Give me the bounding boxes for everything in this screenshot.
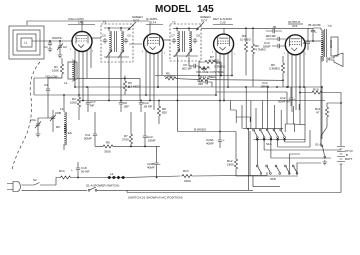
resistor R10 xyxy=(311,91,323,94)
svg-text:2200: 2200 xyxy=(184,179,191,183)
capacitor C6B variable xyxy=(50,115,56,122)
svg-text:C1: C1 xyxy=(44,45,48,49)
dashed chassis curve xyxy=(12,62,40,170)
svg-text:7: 7 xyxy=(305,54,307,56)
wire plug bottom xyxy=(22,189,88,191)
svg-text:MODEL: MODEL xyxy=(155,4,191,15)
svg-text:C6B: C6B xyxy=(55,111,61,115)
resistor R5c 4.7MEG xyxy=(165,77,177,80)
wire bottom rail xyxy=(127,192,341,194)
svg-text:(SWITCH S1 SHOWN IN AC POSITIO: (SWITCH S1 SHOWN IN AC POSITION) xyxy=(128,196,183,200)
wire tube2 pins xyxy=(146,49,162,110)
capacitor C10b xyxy=(139,101,143,107)
svg-text:2: 2 xyxy=(76,33,78,35)
svg-text:820: 820 xyxy=(162,111,167,115)
capacitor C20B 40MF xyxy=(154,161,158,167)
wire tube3 top stub xyxy=(223,28,225,33)
svg-text:.05 MF: .05 MF xyxy=(143,105,153,109)
resistor R7 2700 xyxy=(129,133,132,145)
wire tube1 pins xyxy=(75,47,91,101)
capacitor C17 xyxy=(86,101,90,107)
svg-text:1: 1 xyxy=(70,49,72,51)
capacitor C8 .05 xyxy=(119,101,123,107)
resistor R4 xyxy=(204,60,216,63)
wire T1 out xyxy=(109,44,142,101)
wire c2 drop xyxy=(59,41,61,53)
wire antenna to grid xyxy=(32,40,72,42)
svg-text:DOT: DOT xyxy=(133,19,140,23)
wire tube1 top stub xyxy=(81,21,83,32)
capacitor C2 variable xyxy=(57,44,63,51)
svg-text:3.3 MEG: 3.3 MEG xyxy=(128,85,141,89)
wire top bus xyxy=(27,21,149,25)
wire bus y100 xyxy=(79,100,325,102)
wire y92 line xyxy=(216,91,287,93)
svg-text:L2: L2 xyxy=(64,81,68,85)
switch S1 row2 xyxy=(256,165,262,174)
wire plate bus y28 xyxy=(201,27,313,29)
svg-text:4.7MEG: 4.7MEG xyxy=(164,75,176,79)
svg-text:R14: R14 xyxy=(59,169,65,173)
wire tube2 top stub xyxy=(149,21,151,34)
svg-text:L1: L1 xyxy=(24,41,28,45)
svg-text:50MF: 50MF xyxy=(84,137,92,141)
svg-text:1: 1 xyxy=(284,53,286,55)
svg-text:3V4: 3V4 xyxy=(292,24,298,28)
tube V2 xyxy=(144,34,164,54)
capacitor C20A 40MF xyxy=(218,138,222,144)
svg-text:.05F: .05F xyxy=(123,105,129,109)
resistor R12 1800 xyxy=(234,158,237,170)
svg-text:7: 7 xyxy=(164,53,166,55)
wire right routing xyxy=(285,120,306,142)
svg-text:145: 145 xyxy=(197,4,214,15)
svg-text:3.3MEG: 3.3MEG xyxy=(269,67,281,71)
speaker box xyxy=(331,37,338,56)
capacitor C6A variable xyxy=(35,122,41,129)
svg-text:1: 1 xyxy=(142,51,144,53)
tube V1 xyxy=(72,32,92,52)
svg-text:.05: .05 xyxy=(272,25,277,29)
svg-text:1800: 1800 xyxy=(227,163,234,167)
coil L2 xyxy=(68,62,77,79)
svg-text:330: 330 xyxy=(198,82,203,86)
svg-text:.05MF: .05MF xyxy=(260,85,269,89)
wire row2 bus xyxy=(253,176,298,187)
svg-text:+: + xyxy=(315,30,317,34)
svg-text:1000: 1000 xyxy=(70,101,77,105)
resistor R5 xyxy=(251,43,254,55)
svg-text:DOT: DOT xyxy=(201,19,208,23)
transformer T2 xyxy=(170,21,201,62)
svg-text:100K: 100K xyxy=(52,69,59,73)
svg-text:SPKR: SPKR xyxy=(329,40,333,49)
AC plug xyxy=(7,182,20,192)
coil L3 xyxy=(64,112,66,133)
svg-text:+: + xyxy=(71,168,73,172)
wire row1 bottom bus xyxy=(254,139,306,141)
svg-text:+: + xyxy=(223,138,225,142)
svg-text:WHITE: WHITE xyxy=(52,36,62,40)
svg-text:+: + xyxy=(159,162,161,166)
capacitor C4 xyxy=(46,87,50,93)
svg-text:BATT: BATT xyxy=(345,157,353,161)
resistor R9b 3.3MEG xyxy=(281,62,284,74)
wire speaker down xyxy=(320,61,322,146)
svg-text:50 MF: 50 MF xyxy=(81,170,90,174)
tube V3 xyxy=(214,34,234,54)
switch S1 row1 xyxy=(253,129,259,138)
resistor R2 1000 xyxy=(77,96,80,108)
svg-text:1U5: 1U5 xyxy=(220,21,226,25)
ground xyxy=(322,160,327,165)
tube V4 xyxy=(285,35,305,55)
transformer T3 xyxy=(313,24,332,61)
svg-text:S2: S2 xyxy=(33,178,37,182)
svg-text:1T4: 1T4 xyxy=(151,21,157,25)
svg-text:B WNDG: B WNDG xyxy=(194,128,207,132)
svg-text:T1: T1 xyxy=(103,21,107,25)
svg-text:.002 MF: .002 MF xyxy=(181,67,192,71)
svg-text:1R5: 1R5 xyxy=(78,21,84,25)
resistor R4b 4.7meg xyxy=(198,78,210,81)
wire L corner xyxy=(230,110,250,122)
wire S1 bus xyxy=(243,128,283,130)
svg-text:40MF: 40MF xyxy=(147,166,155,170)
svg-text:3300: 3300 xyxy=(104,150,111,154)
wire yellow line xyxy=(34,77,62,79)
wire tube3 pins xyxy=(216,50,232,102)
svg-text:.004 MF: .004 MF xyxy=(265,34,276,38)
svg-text:1: 1 xyxy=(212,52,214,54)
svg-text:E6: E6 xyxy=(68,131,72,135)
svg-text:.02MF: .02MF xyxy=(262,45,271,49)
wire s1d col xyxy=(321,87,323,139)
svg-text:S1-A (POWER SWITCH): S1-A (POWER SWITCH) xyxy=(86,184,119,188)
resistor R14 xyxy=(60,176,72,179)
svg-text:7: 7 xyxy=(92,51,94,53)
wire row1 drops xyxy=(257,140,284,166)
svg-text:C7: C7 xyxy=(171,34,175,38)
wire plate to T1 xyxy=(92,37,101,39)
node dots on buses xyxy=(86,86,88,88)
wire osc link y78 xyxy=(77,78,140,100)
svg-text:T2: T2 xyxy=(172,21,176,25)
svg-text:+: + xyxy=(294,97,296,101)
svg-text:3.3MEG: 3.3MEG xyxy=(214,65,226,69)
resistor R3 xyxy=(244,41,247,53)
svg-text:L3: L3 xyxy=(60,107,64,111)
resistor R1 xyxy=(60,63,63,75)
wire bus y95 xyxy=(34,94,216,96)
battery B xyxy=(337,144,353,168)
wire avc line xyxy=(180,79,283,81)
svg-text:S1B: S1B xyxy=(270,177,276,181)
tube pin numbers xyxy=(70,33,307,56)
svg-text:C6A: C6A xyxy=(30,118,36,122)
wire c4 col xyxy=(47,110,49,118)
wire tube4 pins xyxy=(288,50,304,112)
wire double feed xyxy=(249,129,251,191)
resistor R5b 3.3meg xyxy=(123,80,126,92)
svg-text:2700: 2700 xyxy=(122,138,129,142)
capacitor C18 50MF xyxy=(76,166,80,172)
capacitor C12 50MF 6V xyxy=(289,96,293,102)
svg-text:R4 4.7MEG: R4 4.7MEG xyxy=(200,75,216,79)
ground xyxy=(48,47,53,52)
node dot ant1 xyxy=(49,40,51,42)
svg-text:C2: C2 xyxy=(63,45,67,49)
wire plug top xyxy=(22,178,60,186)
ground xyxy=(36,132,41,137)
capacitor C11 50MF xyxy=(93,132,97,138)
svg-text:7: 7 xyxy=(234,54,236,56)
svg-text:.02: .02 xyxy=(302,41,307,45)
svg-text:50MF 6V: 50MF 6V xyxy=(278,100,290,104)
svg-text:C5: C5 xyxy=(102,34,106,38)
svg-text:2: 2 xyxy=(218,36,220,38)
svg-text:25-40 MF: 25-40 MF xyxy=(308,23,321,27)
svg-text:R10: R10 xyxy=(313,88,319,92)
svg-text:C6: C6 xyxy=(127,34,131,38)
svg-text:R13: R13 xyxy=(183,169,189,173)
resistor R11 47 xyxy=(325,106,328,118)
wire T2 coil drops xyxy=(178,57,193,101)
volume control R2 xyxy=(198,66,210,69)
svg-text:2: 2 xyxy=(148,35,150,37)
svg-text:40MF: 40MF xyxy=(206,142,214,146)
speaker horn xyxy=(329,53,343,67)
capacitor C13b .01 xyxy=(143,134,147,140)
antenna loop L1 xyxy=(9,26,44,59)
svg-text:C8: C8 xyxy=(196,34,200,38)
resistor R8 820 xyxy=(157,105,160,117)
wire right loop xyxy=(285,124,294,132)
switch S2 gap xyxy=(34,183,40,186)
svg-text:R6: R6 xyxy=(56,125,60,129)
svg-text:MF: MF xyxy=(90,104,94,108)
svg-text:47: 47 xyxy=(316,111,320,115)
wire right col xyxy=(300,87,305,125)
ground xyxy=(58,53,63,58)
svg-text:T3: T3 xyxy=(328,24,332,28)
capacitor C1 xyxy=(48,41,52,47)
svg-text:S1-D: S1-D xyxy=(315,143,323,147)
wire bus y87 xyxy=(75,86,322,88)
resistor R13 xyxy=(181,174,193,177)
resistor R6 3300 xyxy=(102,145,114,148)
resistor R15 .02 xyxy=(306,40,310,46)
wire feeder verticals xyxy=(230,87,299,129)
svg-text:C4: C4 xyxy=(44,83,48,87)
svg-text:.01MF: .01MF xyxy=(147,139,156,143)
svg-text:R6: R6 xyxy=(106,141,110,145)
wire vol bus xyxy=(155,75,232,77)
wire plate to T2 xyxy=(164,39,170,41)
svg-text:L4: L4 xyxy=(110,172,114,176)
wire tube4 plate right xyxy=(305,40,321,42)
transformer T1 xyxy=(101,21,133,63)
svg-text:VOLUME CONTROL: VOLUME CONTROL xyxy=(196,70,225,74)
